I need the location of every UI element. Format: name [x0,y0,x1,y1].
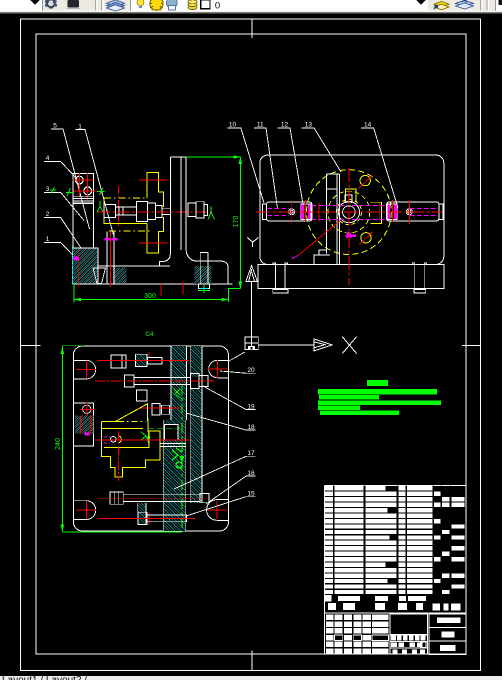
grid cell r0c4 [363,615,371,621]
stud row 3 [137,390,147,401]
technical notes title (green) [367,380,388,386]
green datum symbol cluster [172,448,182,460]
grid cell r0c0 [326,615,333,621]
grid cell r0c1 [335,615,343,621]
grid cell r0c5 [372,615,388,621]
BOM row 5 [325,508,333,512]
layer icon: sun (thaw) [150,0,163,10]
red crosshair [207,360,227,378]
right clamp arm [387,202,440,221]
BOM row 10 [325,535,333,539]
icon: layer properties gear [45,0,58,9]
red slash top circle [359,175,372,188]
svg-text:17: 17 [247,450,255,457]
BOM row 11 [325,541,333,545]
grid cell r2c0 [326,628,333,634]
BOM row 12 [325,546,333,550]
corner slot TL [73,360,95,379]
BOM row 8 [325,524,333,528]
grid cell r5c2 [344,649,352,655]
callout 11 [254,128,277,208]
svg-text:16: 16 [247,470,255,477]
BOM row 6 [325,513,333,517]
callout 15 [186,497,256,516]
grid cell r3c1 [335,635,343,641]
callout 18 [186,413,256,430]
grid cell r2c5 [372,628,388,634]
view C: plan view of jig plate [73,346,228,531]
svg-text:C4: C4 [145,331,154,338]
title cell [390,614,428,635]
grid cell r2c2 [344,628,352,634]
note line 5 [320,410,399,415]
Y arrowhead [246,266,258,282]
toolbar separator grooves [95,0,97,11]
note line 1 [318,389,437,394]
zone divider bottom [251,651,253,671]
X arrowhead [314,339,332,351]
red crosshair [73,185,85,196]
left foot [273,263,288,265]
icon: layers stack [107,0,125,6]
svg-text:5: 5 [53,123,57,130]
screw hole circle 2 [84,187,92,195]
red line through clamp top arm [139,179,168,181]
BOM row 1 [325,486,333,490]
svg-text:300: 300 [144,293,156,300]
grid cell r4c2 [344,642,352,648]
layout tab strip [0,676,502,680]
green surface mark at screw [208,207,215,220]
yellow bolt circle (dashed) [328,191,370,233]
grid cell r5c0 [326,649,333,655]
yellow lever part plan [102,421,118,423]
grid cell r2c4 [363,628,371,634]
clamp screw assembly [104,205,116,218]
red horizontal centerline B [256,211,442,213]
hatched rib upper [171,346,187,420]
grid cell r1c4 [363,621,371,627]
magenta locknut marks [105,238,111,241]
svg-text:10: 10 [229,121,237,128]
leader from datum square to plan view [229,352,245,361]
grid cell r2c1 [335,628,343,634]
corner slot TR [209,360,229,378]
grid cell r4c4 [363,642,371,648]
red crosshair [72,173,86,188]
Y axis line [251,281,253,337]
hatched rib lower [163,420,185,531]
hatched rib right [191,346,202,377]
magenta diagonal tip [292,256,298,259]
svg-text:12: 12 [281,121,289,128]
icon: layer previous [456,0,474,6]
hatch block right [195,266,212,284]
scale cells row 1 [391,636,396,641]
callout 20 [220,371,256,373]
callout 1 (left) [44,242,93,276]
layer icon: coin stack [188,6,197,10]
thread lines in column [73,196,93,198]
BOM row 20 [325,590,333,594]
green dim 240 [62,345,84,347]
grid cell r5c1 [335,649,343,655]
svg-text:2: 2 [46,211,50,218]
datum origin square [245,337,258,350]
base slab [96,265,170,267]
BOM column lines [333,486,335,602]
clamp column [73,174,93,257]
callout 16 [206,476,256,504]
BOM row 19 [325,584,333,588]
lever tip lines into rib [160,443,186,445]
red crosshair [143,513,155,525]
yellow bolt circle bottom [361,233,371,243]
BOM row 17 [325,573,333,577]
svg-text:1: 1 [46,236,50,243]
gib wedge foot [93,268,106,284]
svg-text:19: 19 [247,403,255,410]
base slab B [258,265,444,289]
right info cells [429,614,466,655]
svg-text:20: 20 [247,367,255,374]
red bolt centerline right [408,200,410,224]
red slash bottom circle [360,232,374,245]
green position symbols [174,389,180,395]
red vertical centerline of clamp [118,186,120,228]
vertical plate edges [326,174,328,254]
green tick by callout 3 [50,187,56,194]
grid cell r3c2 [344,635,352,641]
svg-text:15: 15 [247,491,255,498]
red crosshair [80,402,94,416]
svg-text:170: 170 [233,216,240,228]
yellow small dashed circle [336,200,361,225]
callout 19 [203,386,256,410]
green dim ticks at column [66,188,73,196]
zone divider right [462,344,481,346]
bolt row 5 [138,512,147,524]
scale cells row 2 [391,642,397,647]
svg-text:11: 11 [257,121,264,128]
toolbar background [0,0,502,14]
right foot [412,263,427,265]
BOM row with corner cell [325,595,332,602]
BOM row 4 [325,503,333,507]
red centerline lever [95,439,190,441]
left clamp arm [267,202,313,221]
scale cells row 3 [393,649,398,653]
svg-text:18: 18 [247,424,255,431]
red vertical ticks inner [318,203,320,222]
bolt clearance boxes in rib [165,425,179,441]
red crosshair [78,182,98,200]
layer combobox arrow [417,0,426,5]
main red centerline view A [98,211,214,213]
callout 13 [302,128,341,172]
yellow half-round [118,436,122,443]
svg-text:0: 0 [215,1,220,12]
grid cell r1c1 [335,621,343,627]
red crosshair [207,501,227,519]
yellow flange circle [307,170,392,255]
yellow bolt circle top [360,175,370,185]
red stud centerlines [109,232,111,287]
grid cell r1c0 [326,621,333,627]
magenta cross below center [345,235,356,237]
grid cell r1c5 [372,621,388,627]
layer combobox (white) [131,0,429,11]
callout 2 [44,217,86,255]
callout 3 [44,192,84,220]
toolbar separator grooves right [480,0,482,11]
bolt head side view right of plate [188,203,196,217]
X axis line [258,344,314,346]
grid separators [389,613,391,654]
svg-text:14: 14 [364,121,372,128]
red line through clamp bottom arm [139,242,168,244]
grid cell r4c5 [372,642,388,648]
body outline [260,155,444,265]
grid cell r1c3 [353,621,361,627]
grid cell r4c3 [353,642,361,648]
hatch block mid [113,268,126,283]
corner slot BR [207,500,229,521]
combobox dropdown arrow [31,0,40,5]
grid cell r3c3 [353,635,361,641]
stud below clamp [106,232,108,284]
key slot rect [345,195,352,203]
red crosshair [76,501,96,519]
layer icon: bulb on [137,0,144,6]
hatch at bolt row 4 [138,503,146,524]
callout 12 [278,128,304,210]
layer icon: shaded sun (lock) [166,0,177,8]
magenta mark column bottom [74,257,80,261]
magenta nut fill left [301,205,304,220]
grid cell r5c5 [372,649,388,655]
toolbar bottom edge [0,12,502,14]
left pad block [73,403,93,446]
callout 17 [174,456,256,489]
green dim 300 [74,299,229,301]
grid cell r0c2 [344,615,352,621]
svg-text:4: 4 [46,155,50,162]
inner sheet border [36,34,466,654]
BOM table outline [325,485,467,487]
BOM row 9 [325,530,333,534]
bolt row 2 [125,375,134,387]
callout 5 [51,129,90,229]
green centerline vertical [181,385,183,531]
BOM row 2 [325,492,333,496]
grid cell r5c3 [353,649,361,655]
red diagonal leader [298,220,341,256]
magenta nut fill right [387,205,390,220]
yellow slot above center [346,189,356,202]
X letter [342,337,356,354]
icon: make object layer current (yellow) [434,1,449,7]
toolbar highlight line [0,10,502,12]
BOM row 15 [325,563,333,567]
magenta hidden lines at pivot [103,436,110,438]
grid cell r4c1 [335,642,343,648]
title grid area [325,612,467,614]
layer icon: color swatch [201,0,210,9]
grid cell r1c2 [344,621,352,627]
hatch block left [73,248,98,284]
callout 4 [44,161,77,179]
note line 4 [318,406,360,410]
yellow key notch [371,202,382,223]
red crosshair [82,173,94,188]
zone divider left [21,344,41,346]
screw hole circle 1 [75,176,83,184]
BOM row 3 [325,497,333,501]
red nut centerline right [391,200,393,222]
zone divider top [251,19,253,38]
grid cell r0c3 [353,615,361,621]
grid cell r3c0 [326,635,333,641]
svg-text:240: 240 [55,438,62,450]
red bolt centerline left [291,200,293,224]
callout 10 [228,128,264,203]
top bolt row [111,355,126,368]
green/cyan washer mark [198,285,210,293]
red nut centerline left [304,200,306,222]
pivot circle [111,437,117,443]
grid cell r3c5 [372,635,388,641]
note line 3 [318,401,441,406]
green dim small with arrow [147,418,149,444]
partial combobox far right [496,0,502,11]
svg-text:Layout1 / Layout2 /: Layout1 / Layout2 / [2,675,87,680]
svg-text:1: 1 [78,123,82,130]
BOM row 16 [325,568,333,572]
svg-text:3: 3 [46,186,50,193]
yellow swing clamp part [147,173,164,207]
grid cell r3c4 [363,635,371,641]
yellow lever diagonal [115,404,147,422]
BOM row 13 [325,552,333,556]
BOM row 7 [325,519,333,523]
main bracket plate [160,157,186,266]
red vertical centerline B [348,168,350,285]
combobox: command style dropdown [0,0,42,11]
callout 1 (top) [76,130,114,236]
bolt row 4 [110,492,123,504]
Y letter [247,237,259,247]
note line 2 [319,395,379,400]
grid cell r5c4 [363,649,371,655]
BOM row 14 [325,557,333,561]
grid cell r2c3 [353,628,361,634]
corner slot BL [73,501,95,520]
bolt through base right [199,253,201,284]
green surface mark left [97,201,104,213]
cyan dashed edge [71,246,73,284]
step bracket lower left [314,250,330,265]
BOM row 18 [325,579,333,583]
grid cell r4c0 [326,642,333,648]
icon: dark display [66,0,81,9]
callout 14 [361,128,398,208]
center bore circles [338,202,359,223]
red crosshair [76,361,96,379]
green dim 170 [187,156,241,158]
svg-text:13: 13 [305,121,313,128]
yellow lever body [102,421,160,477]
BOM header row [328,603,336,610]
magenta hidden lines arms [268,209,290,216]
